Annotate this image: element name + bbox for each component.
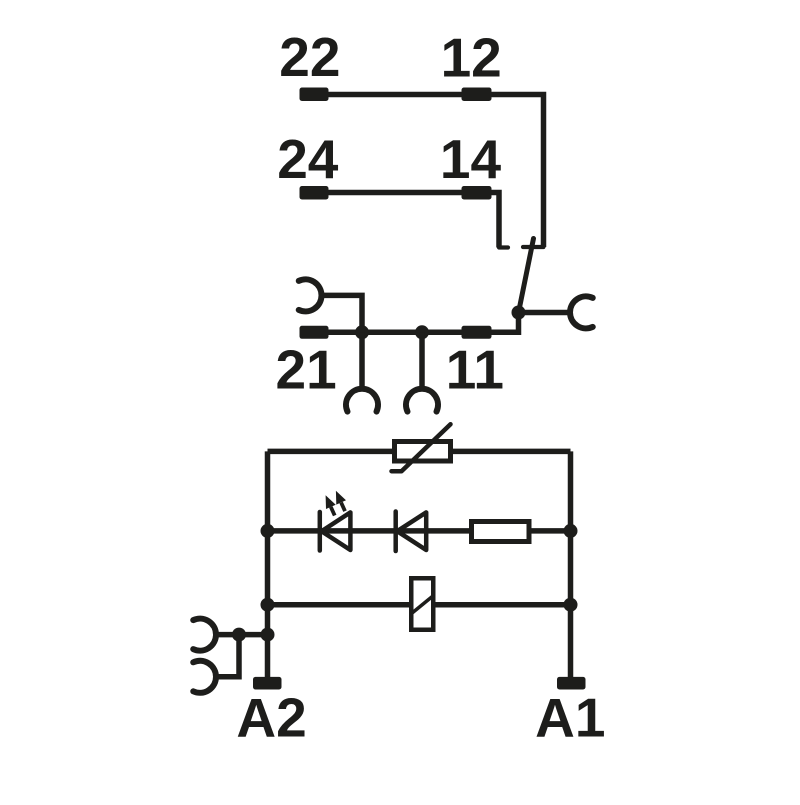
terminal pad 22 — [300, 88, 329, 102]
junction LED row left — [261, 524, 275, 538]
socket fork A2 upper — [193, 619, 216, 651]
contact foot 12 — [523, 245, 544, 249]
LED light arrow 1 — [331, 507, 335, 516]
svg-text:12: 12 — [441, 26, 502, 88]
switch pivot junction — [512, 306, 526, 320]
wire A2 lower fork — [216, 635, 239, 677]
LED branch wire — [268, 528, 571, 534]
svg-text:11: 11 — [446, 339, 504, 401]
LED cathode bar — [318, 512, 323, 551]
svg-text:21: 21 — [276, 339, 337, 401]
wire 24-14 to fixed contact 14 — [310, 193, 499, 248]
terminal pad 11 — [462, 326, 492, 339]
svg-text:A1: A1 — [535, 687, 605, 749]
switch lever — [519, 239, 534, 313]
svg-text:24: 24 — [277, 128, 339, 190]
varistor diagonal — [392, 424, 451, 471]
terminal pad A1 — [557, 677, 586, 690]
junction node 21a — [355, 325, 369, 339]
varistor branch wire — [268, 449, 571, 455]
LED light arrow 2 — [341, 503, 345, 512]
wire down from node 11a — [419, 332, 425, 389]
wire A2 side branch — [216, 632, 268, 638]
coil circuit right rail — [568, 451, 574, 677]
svg-text:A2: A2 — [236, 687, 306, 749]
socket fork above 21 — [299, 279, 322, 311]
diode V1 triangle — [397, 512, 426, 550]
diode V1 cathode bar — [393, 512, 398, 552]
socket fork A2 lower — [193, 661, 216, 693]
junction LED row right — [564, 524, 578, 538]
LED triangle — [322, 512, 351, 550]
svg-text:14: 14 — [440, 128, 502, 190]
terminal pad 21 — [300, 326, 329, 339]
terminal pad A2 — [253, 677, 282, 690]
wire down from node 21a — [359, 332, 365, 389]
junction coil row left — [261, 598, 275, 612]
junction coil row right — [564, 598, 578, 612]
relay coil diagonal — [412, 596, 434, 614]
varistor body — [395, 442, 451, 462]
relay coil branch wire — [268, 602, 571, 608]
junction A2 branch rail — [261, 628, 275, 642]
terminal pad 14 — [462, 186, 492, 200]
contact foot 14 — [499, 245, 508, 249]
junction A2 branch middle — [232, 628, 246, 642]
socket fork below 21 — [346, 389, 378, 412]
wire 21-11 to switch pivot — [310, 313, 570, 333]
coil circuit left rail — [265, 451, 271, 677]
svg-text:22: 22 — [279, 26, 340, 88]
resistor body — [472, 522, 530, 542]
terminal pad 12 — [462, 88, 492, 102]
socket fork right of switch — [570, 296, 593, 328]
wire fork to node 21 — [322, 295, 363, 332]
relay coil body — [411, 578, 433, 630]
terminal pad 24 — [300, 186, 329, 200]
junction node 11a — [415, 325, 429, 339]
wire 22-12 to fixed contact 12 — [310, 95, 544, 248]
socket fork below 11 — [406, 389, 438, 412]
